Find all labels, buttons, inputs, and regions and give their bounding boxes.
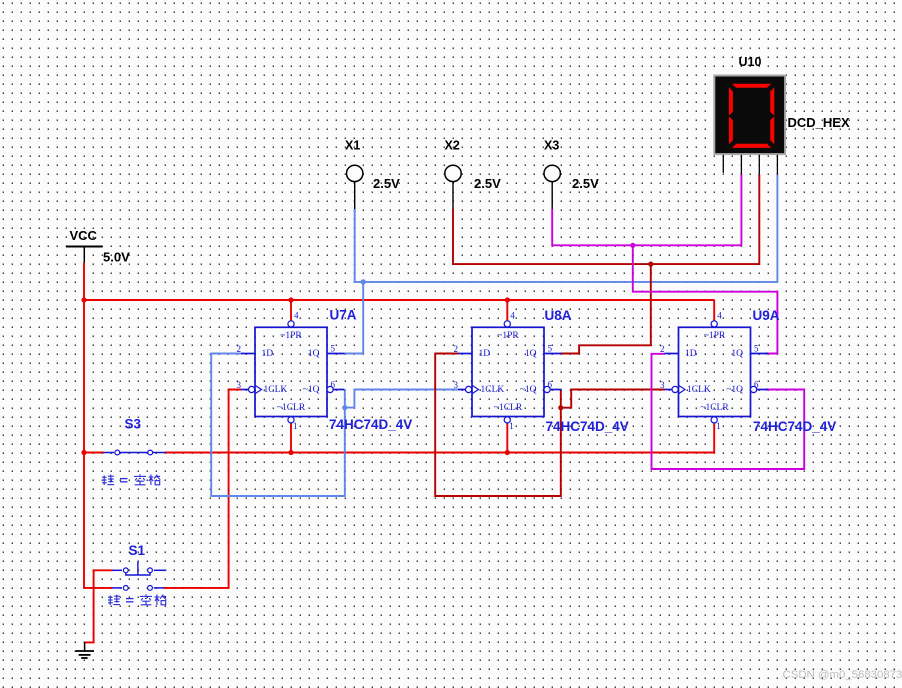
svg-text:~1Q: ~1Q <box>726 385 743 395</box>
svg-text:6: 6 <box>548 380 553 390</box>
svg-text:1CLK: 1CLK <box>264 385 288 395</box>
svg-text:2: 2 <box>237 344 242 354</box>
wire U8A feedback loop ~1Q to 1D <box>435 354 561 497</box>
svg-text:3: 3 <box>454 380 459 390</box>
svg-text:U8A: U8A <box>545 308 572 323</box>
wire VCC trunk down to S1 bottom row <box>84 453 113 588</box>
svg-text:2: 2 <box>454 344 459 354</box>
U8A pin numbers <box>454 311 553 431</box>
svg-text:X3: X3 <box>544 138 559 152</box>
probe X3 <box>544 165 560 209</box>
segment f (lit) <box>729 87 733 115</box>
node junction U7A pin1 tap <box>288 450 293 455</box>
svg-text:~1PR: ~1PR <box>280 331 302 341</box>
svg-text:74HC74D_4V: 74HC74D_4V <box>753 419 836 434</box>
svg-text:~1Q: ~1Q <box>520 385 537 395</box>
svg-text:4: 4 <box>510 311 515 321</box>
svg-text:1CLK: 1CLK <box>481 385 505 395</box>
wire S1 bottom-right to U7A clock pin 3 <box>164 390 242 588</box>
svg-text:~1PR: ~1PR <box>497 331 519 341</box>
svg-text:1D: 1D <box>479 349 491 359</box>
svg-text:1: 1 <box>716 421 721 431</box>
svg-text:VCC: VCC <box>70 228 98 243</box>
svg-text:X1: X1 <box>345 138 360 152</box>
node junction at S3 <box>81 450 86 455</box>
wire VCC trunk down to S3 row <box>83 300 85 453</box>
svg-text:S1: S1 <box>129 543 146 558</box>
wire into S3 left terminal <box>84 452 104 454</box>
segment a (lit) <box>732 84 771 88</box>
svg-text:3: 3 <box>660 380 665 390</box>
wire jog from junction to U9A clock pin 3 <box>561 390 665 408</box>
svg-text:4: 4 <box>294 311 299 321</box>
node junction U8A pin1 tap <box>505 450 510 455</box>
segment b (lit) <box>770 87 774 115</box>
svg-text:1D: 1D <box>685 349 697 359</box>
node junction U7A pin4 tap <box>288 297 293 302</box>
node junction X3 branch <box>630 243 635 248</box>
switch S3 (SPST, closed) <box>103 450 166 455</box>
svg-text:1CLK: 1CLK <box>687 385 711 395</box>
svg-text:4: 4 <box>717 311 722 321</box>
node junction X2 branch <box>648 262 653 267</box>
label key = space (S1) <box>108 594 166 605</box>
svg-text:74HC74D_4V: 74HC74D_4V <box>546 419 629 434</box>
svg-text:U7A: U7A <box>330 307 357 322</box>
svg-text:1D: 1D <box>262 349 274 359</box>
segment d (lit) <box>732 144 771 148</box>
wire U9A feedback loop ~1Q to 1D <box>652 354 805 469</box>
U7A pin numbers <box>237 311 336 431</box>
wire rail corner down to U9A pin 4 <box>713 300 715 321</box>
wire VCC horizontal rail <box>84 299 714 301</box>
svg-text:1Q: 1Q <box>525 349 537 359</box>
node junction X1 branch <box>361 279 366 284</box>
node junction U7A feedback <box>342 405 347 410</box>
svg-text:6: 6 <box>331 380 336 390</box>
svg-text:~1CLR: ~1CLR <box>494 403 523 413</box>
svg-text:6: 6 <box>754 380 759 390</box>
svg-text:~1Q: ~1Q <box>303 385 320 395</box>
wire jog from junction to U8A clock pin 3 <box>345 390 458 408</box>
wire stub up to U7A pin 1 <box>290 423 292 453</box>
switch S1 (push button) <box>112 561 166 590</box>
label key = space (S3) <box>102 474 160 485</box>
svg-text:2: 2 <box>660 344 665 354</box>
wire X1 net (blue): probe to display pin 4 <box>355 174 778 282</box>
display pin 4 <box>776 155 778 175</box>
ground symbol <box>75 642 94 658</box>
wire S1 top-left terminal to ground <box>85 570 113 642</box>
svg-text:U10: U10 <box>739 55 762 69</box>
svg-text:5.0V: 5.0V <box>103 250 130 265</box>
wire U8A ~1Q down to junction <box>560 390 562 408</box>
segment c (lit) <box>770 116 774 144</box>
svg-text:1: 1 <box>293 421 298 431</box>
wire X1 branch down to U7A 1Q <box>345 282 364 354</box>
svg-text:U9A: U9A <box>753 308 780 323</box>
node junction U8A feedback <box>558 405 563 410</box>
svg-text:~1PR: ~1PR <box>704 331 726 341</box>
wire VCC stem down to rail <box>83 263 85 301</box>
wire X2 branch to U8A 1Q (jog) <box>561 264 651 353</box>
svg-text:1Q: 1Q <box>731 349 743 359</box>
U8A inner pin labels <box>479 331 537 413</box>
svg-text:5: 5 <box>754 344 759 354</box>
svg-text:2.5V: 2.5V <box>474 176 501 191</box>
U9A inner pin labels <box>685 331 743 413</box>
wire U7A ~1Q down to junction <box>344 390 346 408</box>
wire stub up to U8A pin 1 <box>506 423 508 453</box>
svg-text:~1CLR: ~1CLR <box>277 403 306 413</box>
wire X3 branch to U9A 1Q <box>633 245 778 353</box>
svg-text:1: 1 <box>509 421 514 431</box>
svg-text:5: 5 <box>331 344 336 354</box>
D flip-flop U8A body <box>458 321 562 423</box>
7-segment display U10 body <box>714 76 785 155</box>
D flip-flop U9A body <box>665 321 769 423</box>
U9A pin numbers <box>660 311 759 431</box>
power VCC symbol <box>66 228 103 263</box>
svg-text:2.5V: 2.5V <box>373 176 400 191</box>
svg-text:1Q: 1Q <box>308 349 320 359</box>
U7A inner pin labels <box>262 331 320 413</box>
node junction U8A pin4 tap <box>505 297 510 302</box>
wire X2 net (dark red): probe to display pin 3 <box>453 174 759 264</box>
display pin 2 <box>740 155 742 175</box>
wire U7A feedback loop ~1Q to 1D <box>211 354 345 497</box>
svg-text:CSDN @m0_56830873: CSDN @m0_56830873 <box>783 669 902 681</box>
wire stub to U8A pin 4 <box>506 300 508 321</box>
svg-text:5: 5 <box>548 344 553 354</box>
probe X1 <box>347 165 363 209</box>
node VCC rail corner junction <box>81 297 86 302</box>
svg-text:3: 3 <box>237 380 242 390</box>
display pin 3 <box>758 155 760 175</box>
wire X3 net (magenta): probe to display pin 2 <box>552 174 741 245</box>
svg-text:~1CLR: ~1CLR <box>700 403 729 413</box>
D flip-flop U7A body <box>241 321 345 423</box>
wire CLR rail from S3 to U9A pin 1 <box>165 423 714 453</box>
display pin 1 <box>722 155 724 173</box>
wire stub to U7A pin 4 <box>290 300 292 321</box>
probe X2 <box>445 165 461 209</box>
svg-text:DCD_HEX: DCD_HEX <box>788 115 850 130</box>
svg-text:S3: S3 <box>125 417 142 432</box>
segment e (lit) <box>729 116 733 144</box>
svg-text:74HC74D_4V: 74HC74D_4V <box>329 417 412 432</box>
svg-text:2.5V: 2.5V <box>572 176 599 191</box>
svg-text:X2: X2 <box>445 138 460 152</box>
